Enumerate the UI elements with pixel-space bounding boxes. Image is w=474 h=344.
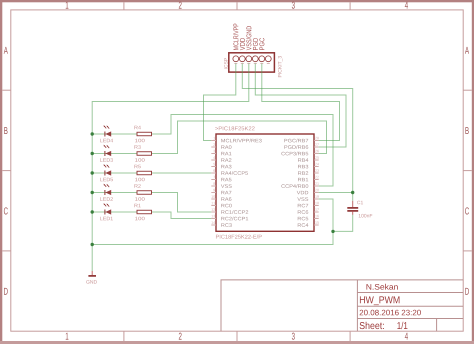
junction LED1 row / GND bus [91,210,94,213]
IC right pin 23 RB2 [314,172,319,174]
connector pin label PGC [259,38,264,50]
wire R1 to IC pin13 RC2/CCP1 [152,212,212,219]
wire VDD: connector pin2 to capacitor top [242,64,352,201]
wire LED5 row [92,172,137,174]
IC right pin 26 CCP3/RB5 [314,153,319,155]
title block row divider 2 [357,305,463,307]
IC left pin 1 MCLR/VPP/RE3 [211,140,216,142]
IC right pin 17 RC6 [314,211,319,213]
IC right pin 21 CCP4/RB0 [314,185,319,187]
resistor R3 value 100 [134,145,151,162]
connector pin 6 mark [267,63,270,65]
resistor R2 value 100 [134,184,151,201]
title block row divider 1 [357,292,463,294]
IC left pin 11 RC0 [211,205,216,207]
junction GND bus / bottom run [91,243,94,246]
title document name HW_PWM [360,296,400,305]
resistor R1 value 100 [134,204,151,220]
connector pin 1 mark [234,63,237,65]
IC right pin 18 RC7 [314,205,319,207]
IC left pin 7 RA5 [211,179,216,181]
title sheet number 1/1 [397,322,407,329]
wire MCLR: connector pin1 to IC pin1 [204,64,236,141]
IC right pin 25 RB4 [314,159,319,161]
LED LED5 [100,164,113,181]
ground symbol GND [86,271,97,284]
capacitor C1 100nF [347,201,372,218]
connector pin label MCLR/VPP [233,24,238,50]
connector pin label VDD [240,38,245,50]
title date 20.08.2016 23:20 [360,310,421,316]
op IC body PIC18F25K22 [216,134,314,231]
junction capacitor bottom / VSS run [331,230,334,233]
wire GND: connector pin3 to LED bus down to ground [92,64,249,272]
connector pin circle 2 [239,56,245,62]
connector pin 2 mark [241,63,244,65]
LED LED4 [100,125,113,142]
LED LED1 [100,203,113,220]
IC name label >PIC18F25K22 [215,126,254,130]
junction LED4 row / GND bus [91,132,94,135]
LED LED3 [100,145,113,162]
connector pin circle 4 [252,56,258,62]
connector pin circle 5 [259,56,265,62]
wire LED1 row [92,211,137,213]
connector pin circle 6 [265,56,271,62]
wire R4 to IC pin21 CCP4/RB0 [152,115,334,187]
IC left pin 2 RA0 [211,146,216,148]
wire GND bottom run to IC pin19 VSS [92,199,333,245]
wire LED4 row [92,133,137,135]
resistor R5 value 100 [134,165,151,181]
resistor R4 value 100 [134,126,151,142]
IC left pin 13 RC2/CCP1 [211,218,216,220]
IC right pin 15 RC4 [314,224,319,226]
wire LED2 row [92,192,137,194]
wire R2 to IC pin12 RC1/CCP2 [152,193,212,213]
connector pin 4 mark [254,63,257,65]
IC right pin 19 VSS [314,198,319,200]
wire GND capacitor bottom to VSS run [333,215,353,232]
IC right pin 24 RB3 [314,166,319,168]
connector pin circle 3 [246,56,252,62]
IC right pin 16 RC5 [314,218,319,220]
IC right pin 22 RB1 [314,179,319,181]
connector pin 5 mark [260,63,263,65]
IC left pin 5 RA3 [211,166,216,168]
junction LED2 row / GND bus [91,191,94,194]
connector pin label VSS/GND [246,26,251,50]
wire R5 to IC pin6 RA4/CCP5 [152,172,212,174]
IC value label PIC18F25K22-E/P [216,235,262,239]
wire LED3 row [92,153,137,155]
IC left pin 6 RA4/CCP5 [211,172,216,174]
wire VDD IC pin20 to capacitor branch [319,192,353,194]
IC left pin 9 RA7 [211,192,216,194]
IC right pin 27 PGD/RB6 [314,146,319,148]
junction VDD pin20 / capacitor [351,191,354,194]
IC left pin 3 RA1 [211,153,216,155]
connector name ICSP [224,58,228,69]
title block divider vertical [356,280,358,331]
connector value PICKIT_3 [278,56,282,77]
IC right pin 20 VDD [314,192,319,194]
junction LED5 row / GND bus [91,171,94,174]
wire R3 to IC pin26 CCP3/RB5 [152,121,327,154]
wire PGD: connector pin4 to IC pin27 [255,64,346,148]
title block outline [221,280,463,331]
title author N.Sekan [366,284,397,290]
wire PGC: connector pin5 to IC pin28 [262,64,340,141]
connector ICSP PICKIT_3 body [229,53,275,72]
title block row divider 3 [357,318,463,320]
LED LED2 [100,184,113,201]
IC left pin 14 RC3 [211,224,216,226]
IC right pin 28 PGC/RB7 [314,140,319,142]
IC left pin 12 RC1/CCP2 [211,211,216,213]
connector pin circle 1 [233,56,239,62]
IC left pin 10 RA6 [211,198,216,200]
title block sheet cell divider [436,319,438,332]
title sheet label [360,322,384,329]
IC left pin 4 RA2 [211,159,216,161]
IC left pin 8 VSS [211,185,216,187]
junction LED3 row / GND bus [91,152,94,155]
connector pin 3 mark [247,63,250,65]
connector pin label PGD [253,38,258,50]
